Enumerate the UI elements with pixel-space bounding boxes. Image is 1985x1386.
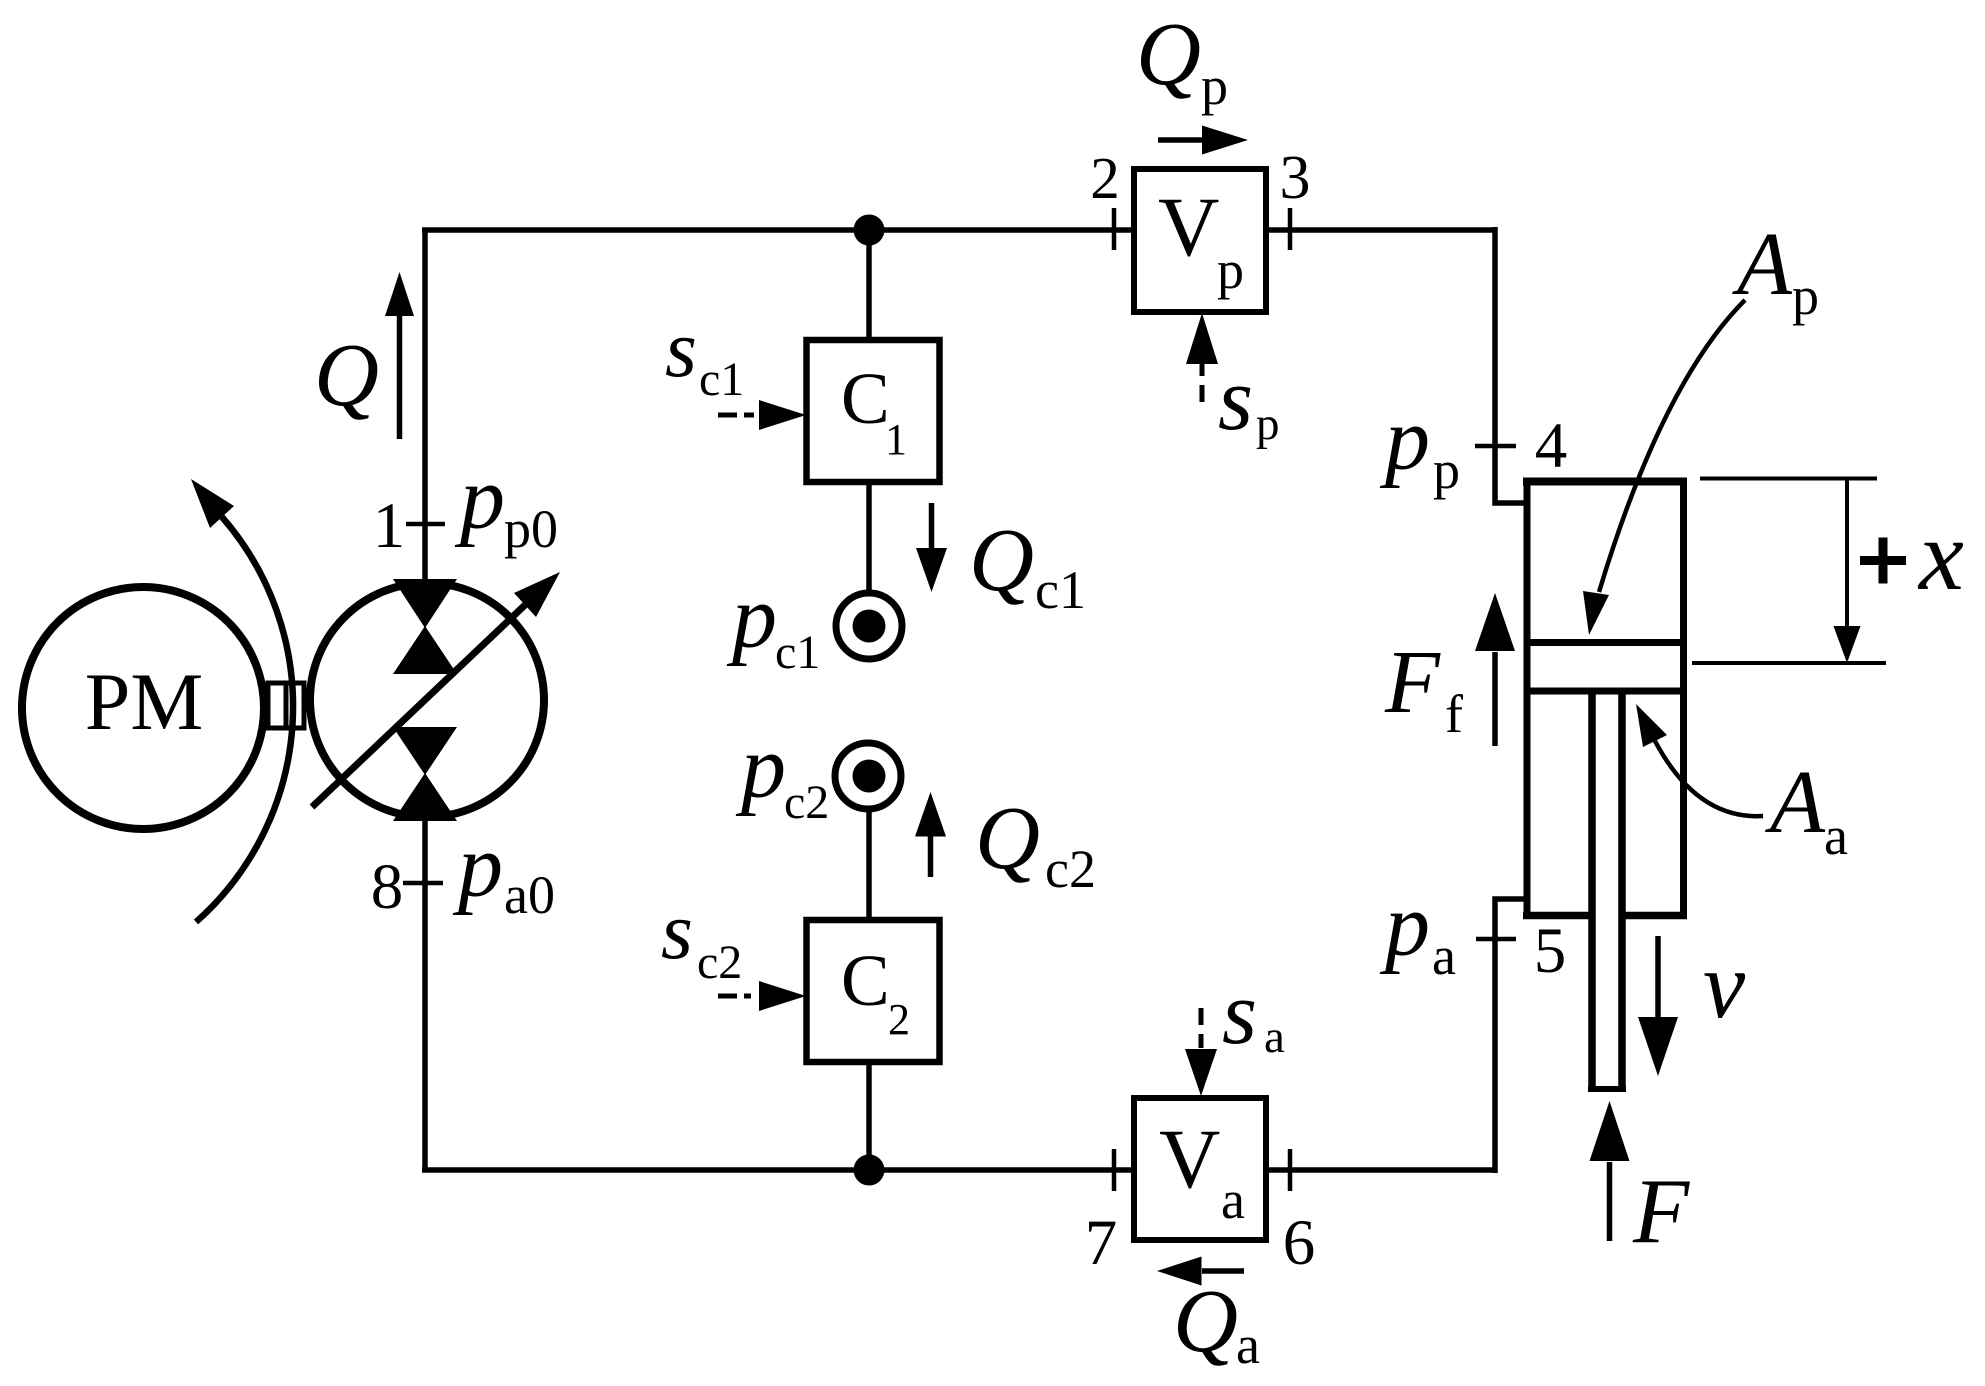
node 5 tick <box>1476 937 1516 942</box>
prime mover PM circle <box>22 587 264 829</box>
flow Q_c2 up arrow <box>915 792 946 877</box>
cylinder bottom wall left part <box>1523 912 1591 920</box>
cylinder right wall <box>1680 478 1687 919</box>
svg-text:F: F <box>1632 1160 1690 1262</box>
wire bottom horizontal <box>422 1167 1134 1173</box>
flow Q_c1 down arrow <box>916 503 947 592</box>
label F_f <box>1384 633 1463 744</box>
svg-text:v: v <box>1703 932 1746 1038</box>
dimension reference line bottom <box>1692 661 1886 665</box>
svg-text:p: p <box>1201 56 1228 116</box>
signal s_c1 dashed arrow <box>718 400 806 430</box>
svg-text:Q: Q <box>969 511 1034 610</box>
dimension reference line top <box>1700 477 1877 481</box>
svg-text:Q: Q <box>975 789 1040 888</box>
svg-text:a0: a0 <box>504 865 555 925</box>
svg-text:V: V <box>1159 1112 1220 1206</box>
label A_p with pointer <box>1583 215 1819 635</box>
svg-text:1: 1 <box>373 490 406 562</box>
svg-text:a: a <box>1432 926 1456 986</box>
signal s_c2 dashed arrow <box>718 981 806 1011</box>
svg-text:3: 3 <box>1280 144 1311 212</box>
label p_a <box>1379 876 1456 986</box>
shaft coupling <box>268 683 304 728</box>
svg-text:Q: Q <box>314 326 379 425</box>
valve Vp box <box>1134 169 1266 312</box>
dimension +x arrow <box>1834 479 1861 664</box>
label Q_a <box>1173 1272 1260 1375</box>
pump triangle bottom outer <box>393 773 457 821</box>
signal s_a dashed arrow <box>1185 1008 1217 1096</box>
signal s_p dashed arrow <box>1186 313 1218 402</box>
piston rod bottom cap <box>1588 1086 1626 1092</box>
label s_p <box>1218 350 1280 450</box>
svg-text:1: 1 <box>885 415 907 464</box>
svg-text:p: p <box>1433 440 1460 500</box>
rotation direction curved arrow <box>191 479 293 922</box>
svg-text:C: C <box>841 358 890 439</box>
svg-text:5: 5 <box>1534 915 1567 987</box>
svg-text:A: A <box>1765 753 1826 852</box>
label Q_c2 <box>975 789 1096 899</box>
port p_c2 symbol <box>835 743 901 809</box>
svg-text:c2: c2 <box>1045 839 1096 899</box>
svg-text:p: p <box>1379 876 1430 975</box>
svg-text:p: p <box>1217 240 1244 300</box>
svg-text:p: p <box>726 568 777 667</box>
svg-text:V: V <box>1158 180 1219 274</box>
control valve C2 box <box>807 920 940 1062</box>
svg-text:a: a <box>1264 1011 1285 1063</box>
piston rod left wall <box>1588 694 1596 1089</box>
svg-text:a: a <box>1221 1170 1245 1230</box>
wire right lower vertical to port 5 <box>1495 899 1527 1173</box>
node 8 tick <box>403 881 443 886</box>
wire C1 to port pc1 <box>866 478 872 592</box>
svg-text:c1: c1 <box>699 353 744 406</box>
svg-text:2: 2 <box>888 995 910 1044</box>
wire top horizontal <box>422 227 1134 233</box>
wire pump to top left corner <box>422 230 428 581</box>
piston rod right wall <box>1618 694 1626 1089</box>
label p_a0 <box>452 817 555 925</box>
junction node top <box>854 215 885 246</box>
wire C2 to bottom junction <box>866 1058 872 1170</box>
node 2 tick <box>1112 208 1117 250</box>
svg-text:C: C <box>841 940 890 1021</box>
svg-text:c1: c1 <box>775 626 820 679</box>
label p_c2 <box>735 718 829 829</box>
wire junction to C1 <box>866 230 872 344</box>
node 7 tick <box>1112 1149 1117 1191</box>
svg-text:x: x <box>1917 499 1964 611</box>
svg-text:6: 6 <box>1283 1207 1316 1279</box>
cylinder top wall <box>1523 478 1687 486</box>
label +x <box>1860 499 1964 611</box>
label s_a <box>1222 964 1285 1063</box>
cylinder bottom wall right part <box>1620 912 1687 920</box>
pump triangle top outer <box>393 579 457 628</box>
control valve C1 box <box>807 340 940 482</box>
svg-text:p: p <box>452 817 503 916</box>
label p_p <box>1379 390 1460 500</box>
force F_f up arrow <box>1475 593 1515 746</box>
piston bottom line <box>1524 688 1687 695</box>
force F up arrow <box>1590 1101 1630 1241</box>
svg-text:p: p <box>1792 266 1819 326</box>
svg-text:p: p <box>1256 398 1280 450</box>
flow Q_a arrow <box>1157 1257 1244 1286</box>
velocity v down arrow <box>1638 936 1678 1076</box>
label A_a with pointer <box>1636 704 1848 866</box>
svg-text:c2: c2 <box>697 936 742 989</box>
flow Q_p arrow <box>1158 126 1248 155</box>
pump variable displacement diagonal arrow <box>312 572 560 807</box>
svg-text:PM: PM <box>85 656 204 747</box>
svg-text:s: s <box>1218 350 1253 449</box>
label p_c1 <box>726 568 820 679</box>
label Q with up arrow <box>314 272 414 439</box>
piston top line <box>1524 639 1680 646</box>
svg-text:7: 7 <box>1085 1207 1118 1279</box>
variable displacement pump circle <box>310 583 544 817</box>
pump triangle top inner <box>393 626 457 674</box>
valve Va box <box>1134 1098 1266 1240</box>
label Q_p <box>1136 5 1228 116</box>
junction node bottom <box>854 1155 885 1186</box>
svg-text:Q: Q <box>1173 1272 1238 1371</box>
svg-text:s: s <box>1222 964 1257 1063</box>
svg-text:p: p <box>1379 390 1430 489</box>
svg-text:2: 2 <box>1090 145 1120 211</box>
label s_c1 <box>665 303 744 406</box>
wire Vp to right corner <box>1266 227 1495 233</box>
wire pump bottom to bottom left corner <box>422 820 428 1170</box>
svg-text:p: p <box>735 718 786 817</box>
cylinder left wall <box>1524 478 1531 919</box>
port p_c1 symbol <box>836 593 902 659</box>
svg-text:8: 8 <box>371 851 404 923</box>
svg-text:p0: p0 <box>504 499 558 559</box>
label s_c2 <box>661 885 742 989</box>
svg-text:A: A <box>1732 215 1793 314</box>
svg-text:f: f <box>1445 684 1463 744</box>
svg-text:F: F <box>1384 633 1441 732</box>
svg-text:Q: Q <box>1136 5 1201 104</box>
svg-text:s: s <box>661 885 693 976</box>
label p_p0 <box>454 449 558 559</box>
wire Va to right corner <box>1266 1167 1495 1173</box>
svg-text:c2: c2 <box>784 776 829 829</box>
node 4 tick <box>1475 444 1516 449</box>
svg-text:p: p <box>454 449 505 548</box>
node 6 tick <box>1288 1149 1293 1191</box>
svg-text:s: s <box>665 303 697 394</box>
svg-text:a: a <box>1824 806 1848 866</box>
node 1 tick <box>406 522 445 527</box>
node 3 tick <box>1288 208 1293 250</box>
svg-text:4: 4 <box>1535 410 1568 482</box>
svg-text:a: a <box>1236 1315 1260 1375</box>
label Q_c1 <box>969 511 1086 620</box>
svg-text:c1: c1 <box>1035 560 1086 620</box>
pump triangle bottom inner <box>393 727 457 775</box>
wire port pc2 to C2 <box>866 810 872 924</box>
wire right upper vertical to port 4 <box>1495 227 1527 503</box>
